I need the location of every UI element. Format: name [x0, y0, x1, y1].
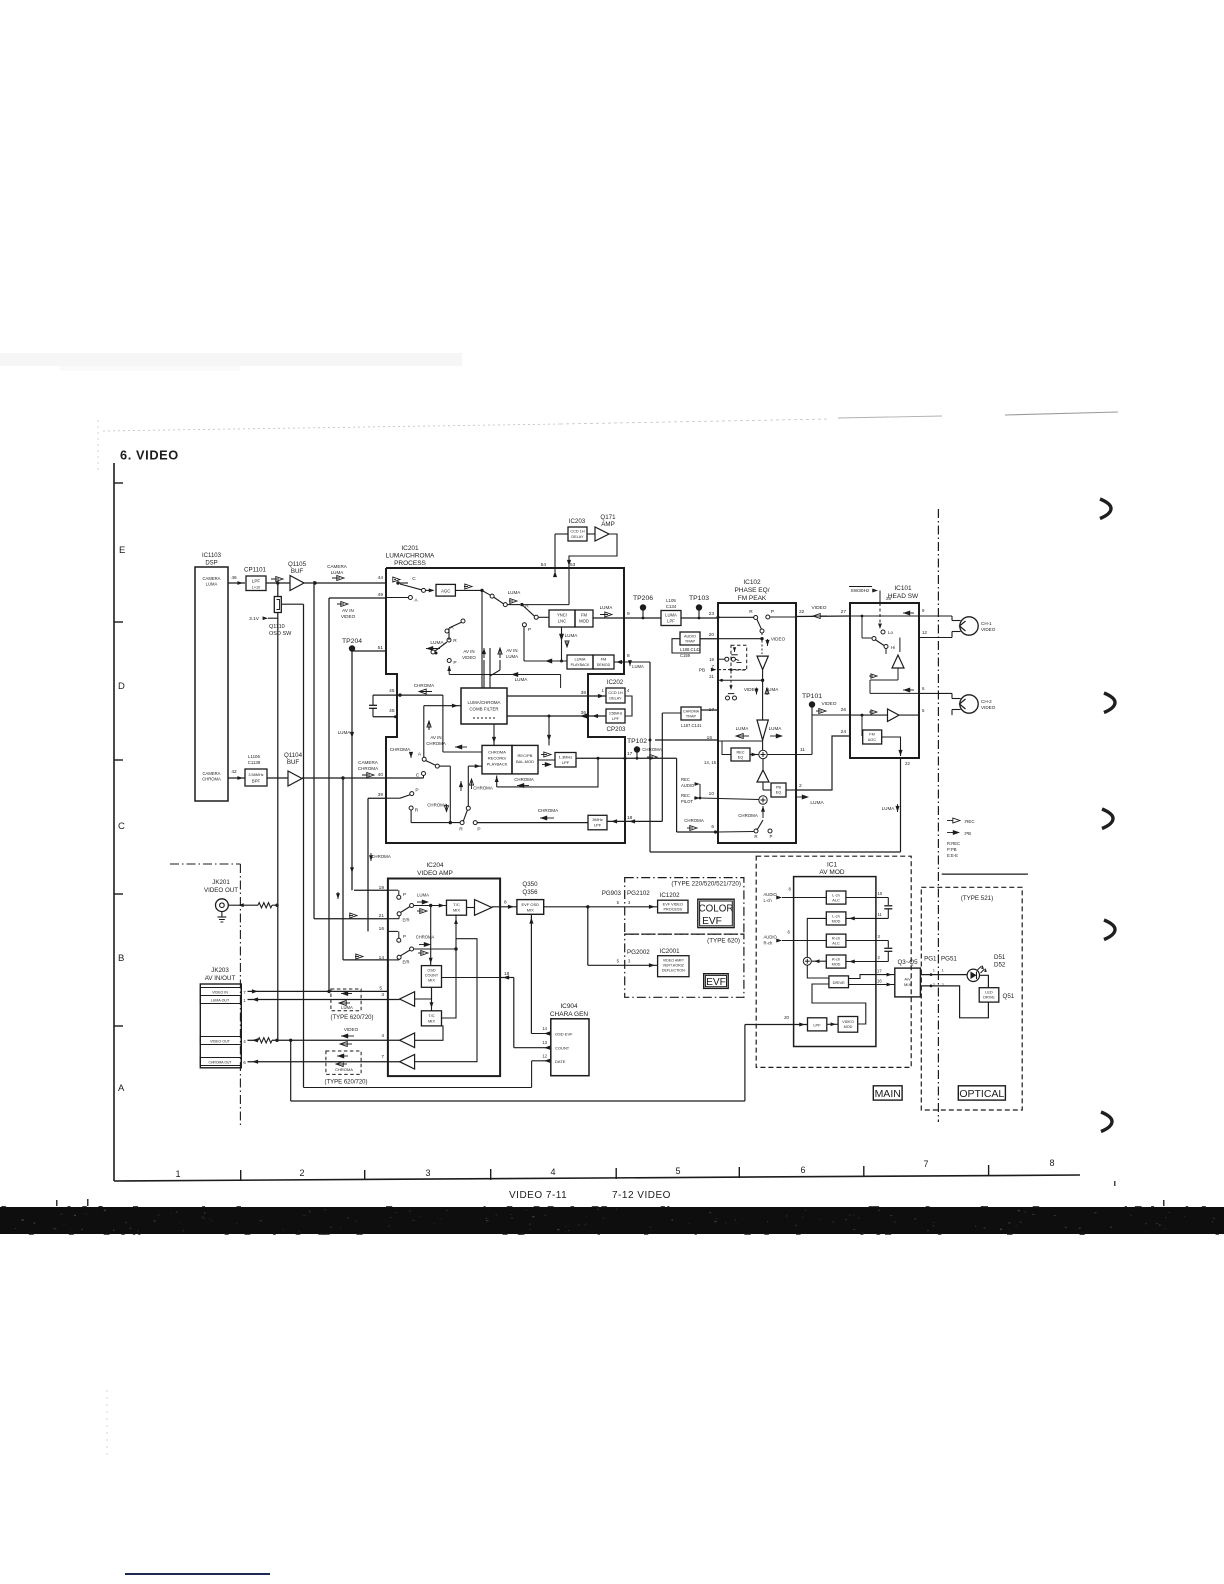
svg-text:28: 28: [886, 596, 891, 601]
svg-text:DRIVE: DRIVE: [833, 980, 846, 985]
svg-text:COMB FILTER: COMB FILTER: [469, 707, 498, 712]
svg-text:PB: PB: [699, 668, 705, 674]
svg-text:LUMA: LUMA: [417, 893, 429, 898]
svg-text:COLOR: COLOR: [699, 904, 734, 915]
svg-text:CHROMA: CHROMA: [358, 766, 379, 771]
amplifier (up) PB eq driver: [757, 759, 769, 782]
svg-text:C159: C159: [680, 653, 691, 658]
svg-text:(TYPE 620/720): (TYPE 620/720): [330, 1015, 373, 1021]
block 1.3MHz LPF: [555, 753, 576, 768]
svg-text:DSP: DSP: [205, 561, 217, 567]
svg-text:VIDEO 7-11: VIDEO 7-11: [509, 1190, 567, 1201]
svg-text:R-ch: R-ch: [832, 958, 840, 962]
svg-text:JK203: JK203: [211, 967, 229, 974]
wire OSD date vertical from Q1110: [303, 604, 305, 1087]
wire P contact to luma playback line: [524, 627, 567, 663]
svg-text:CHROMA OUT: CHROMA OUT: [209, 1061, 232, 1065]
svg-text:2: 2: [299, 1168, 304, 1178]
svg-text:IC204: IC204: [426, 862, 444, 869]
svg-text:REC/PB: REC/PB: [518, 753, 533, 758]
block CCD 1H DELAY (IC202): [602, 688, 630, 703]
svg-text:CAMERA: CAMERA: [203, 576, 221, 581]
boundary horizontal segment right: [942, 873, 1028, 875]
svg-text:BPF: BPF: [252, 779, 261, 784]
svg-text:VIDEO: VIDEO: [842, 1020, 854, 1024]
block LED DRIVE: [979, 988, 1015, 1002]
title 6. VIDEO: [120, 448, 179, 463]
connector boundary dash-dot near JK: [170, 864, 240, 1125]
svg-text:OPTICAL: OPTICAL: [959, 1088, 1004, 1100]
dashed box LUMA (TYPE 620/720): [330, 989, 373, 1021]
wire chroma chain down to T/C MIX 2: [430, 987, 434, 1011]
svg-text:E/R: E/R: [403, 960, 410, 965]
svg-text:Q51: Q51: [1003, 993, 1015, 1000]
svg-text:LUMA: LUMA: [331, 570, 345, 575]
svg-text:TRAP: TRAP: [686, 715, 697, 719]
wire chroma to 3MHz LPF: [477, 822, 588, 824]
svg-text:VIDEO: VIDEO: [344, 1027, 359, 1032]
svg-text:CHROMA: CHROMA: [371, 854, 391, 859]
svg-text:45: 45: [389, 708, 395, 714]
svg-text:AV MOD: AV MOD: [819, 869, 844, 876]
inductor L1106 C1138 label: [248, 754, 261, 765]
boxed label EVF: [704, 974, 729, 989]
wire chroma feedback loop under bal mod: [495, 757, 600, 788]
svg-text:Q350: Q350: [522, 881, 538, 888]
amplifier head ch2 (right): [869, 709, 899, 722]
svg-text:4: 4: [550, 1167, 555, 1177]
wires from AV-in switches up to luma path: [449, 619, 500, 688]
svg-text:18: 18: [627, 815, 633, 821]
svg-text:TP102: TP102: [627, 738, 647, 745]
svg-text:CHROMA: CHROMA: [390, 747, 411, 752]
svg-text:LPF: LPF: [667, 619, 675, 624]
block REC EQ: [704, 741, 750, 765]
svg-text:VIDEO: VIDEO: [981, 705, 996, 710]
svg-text:L188.C142: L188.C142: [680, 647, 701, 652]
label CHROMA + up/down arrows mid: [459, 779, 493, 791]
wires comb filter top feeds: [482, 590, 490, 688]
amplifier pin 4 (left): [400, 1026, 443, 1048]
svg-text:LUMA OUT: LUMA OUT: [211, 999, 230, 1003]
svg-text:AUDIO: AUDIO: [764, 935, 778, 940]
switch S5 (R/P) chroma bottom of IC201: [409, 764, 482, 832]
label VIDEO + REC arrow at pin 26: [816, 701, 846, 713]
svg-text:IC202: IC202: [607, 679, 624, 686]
svg-text:R: R: [415, 808, 419, 814]
amplifier (down) FM limiter: [718, 641, 768, 683]
svg-text:P: P: [403, 892, 406, 897]
label AUDIO L-ch pin 8: [764, 887, 792, 904]
label SW30Hz with overline: [849, 587, 878, 595]
svg-text:EVF: EVF: [706, 977, 726, 988]
wire DRIVE outputs to A/V MIX pins 17 16: [849, 969, 895, 987]
svg-text:COUNT: COUNT: [425, 974, 439, 978]
wire 3.58 LPF return to comb: [507, 714, 588, 719]
svg-text:1×10: 1×10: [252, 586, 261, 590]
svg-text:8: 8: [504, 900, 507, 906]
svg-text:8: 8: [1049, 1158, 1054, 1168]
block R-ch MOD: [826, 955, 846, 968]
test point TP206: [633, 595, 653, 619]
svg-text:10: 10: [878, 891, 883, 896]
wire IC1103 pin42 to BPF: [228, 776, 245, 780]
label CHROMA + REC arrow at pin 6: [684, 818, 704, 830]
svg-text:E: E: [119, 545, 125, 556]
svg-text:VIDEO: VIDEO: [822, 701, 837, 707]
svg-text:LUMA: LUMA: [506, 654, 518, 659]
block EVF VIDEO PROCESS: [658, 900, 688, 913]
label luma arrow rail at 914: [336, 892, 340, 899]
svg-text:B: B: [118, 953, 124, 964]
IC IC1 AV MOD: [794, 862, 876, 1047]
block EVF OSD MIX (Q350 Q356): [517, 881, 544, 914]
svg-text:PG51: PG51: [941, 956, 957, 963]
block L-ch ALC: [826, 891, 846, 904]
wire summing node to DRIVE: [807, 965, 829, 978]
wire 3.58 LPF to pin 36: [588, 714, 606, 718]
svg-text:OSD EVF: OSD EVF: [555, 1032, 573, 1037]
label CHROMA + REC arrow right of TP102: [642, 747, 662, 759]
IC IC904 CHARA GEN: [550, 1003, 589, 1076]
svg-text:VIDEO: VIDEO: [462, 655, 476, 660]
wire FM AGC to pin 22: [882, 737, 911, 766]
wire pin 20 to LPF: [784, 1015, 805, 1026]
wire camera luma: Q1105 to IC201 pin 44: [276, 581, 386, 584]
block LUMA LPF: [661, 611, 681, 626]
boxed label COLOR EVF: [698, 899, 734, 927]
svg-text:LUMA: LUMA: [574, 657, 585, 662]
left border line with row ticks: [114, 463, 123, 1181]
svg-text:L1106: L1106: [248, 754, 260, 759]
video head CH-2: [919, 693, 996, 715]
buffer Q1104 BUF: [284, 752, 303, 786]
svg-text:IC904: IC904: [560, 1003, 578, 1010]
svg-text:LUMA: LUMA: [206, 582, 218, 587]
svg-text:PLAYBACK: PLAYBACK: [487, 762, 508, 767]
svg-text:4: 4: [381, 1033, 384, 1039]
wires comb filter down to chroma record/playback: [492, 716, 551, 745]
svg-text:OSD: OSD: [427, 969, 435, 973]
svg-text:Q3~Q5: Q3~Q5: [897, 959, 918, 966]
svg-text:ALC: ALC: [832, 942, 840, 946]
label IC102 PHASE EQ/ FM PEAK: [734, 579, 769, 602]
svg-text:LUMA: LUMA: [515, 677, 529, 682]
row labels E D C B A: [118, 545, 125, 1094]
svg-text:10: 10: [709, 791, 715, 797]
label LUMA arrows at pin 16 level: [736, 726, 783, 738]
svg-text:40: 40: [378, 772, 384, 778]
switch S10 luma P/ER: [397, 890, 414, 922]
svg-text:LUMA: LUMA: [882, 806, 896, 811]
svg-text:CHROMA: CHROMA: [738, 813, 758, 818]
svg-text:MAIN: MAIN: [875, 1088, 901, 1100]
svg-text:BUF: BUF: [291, 568, 304, 575]
svg-text:PROCESS: PROCESS: [394, 560, 426, 567]
svg-text:MOD: MOD: [832, 919, 841, 923]
svg-text:IC102: IC102: [743, 579, 761, 586]
wire EVF OSD MIX output to PG connectors: [544, 905, 658, 909]
video head CH-1: [919, 616, 996, 638]
wire vertical chroma feed to IC204 pin 14: [341, 776, 344, 960]
pin 42 of IC1103: [231, 769, 237, 775]
wire LED to LED DRIVE: [980, 975, 989, 987]
bottom axis line with column ticks: [114, 1165, 1080, 1181]
dashed box OPTICAL (TYPE 521): [921, 887, 1022, 1110]
block YNC/LNC and FM MOD: [549, 610, 593, 627]
mixer node circle 1: [750, 740, 767, 759]
svg-text:(TYPE 220/520/521/720): (TYPE 220/520/521/720): [671, 881, 741, 888]
wire bal mod to 1.3MHz LPF with REC/PB arrows: [538, 752, 555, 767]
svg-text:D51: D51: [994, 954, 1006, 961]
wire T/C2 to EVF OSD mix vertical: [442, 914, 458, 1018]
svg-text:20: 20: [784, 1015, 789, 1020]
svg-text:CHROMA: CHROMA: [684, 818, 704, 823]
wire luma switch to T/C MIX: [414, 904, 447, 908]
mixer node circle 2: [759, 790, 767, 804]
svg-text:8: 8: [627, 653, 630, 659]
svg-text:C: C: [412, 576, 416, 582]
switch S2 (C/R) after AGC with LUMA arrow: [455, 584, 549, 633]
svg-text:LPF: LPF: [813, 1022, 821, 1027]
block PB EQ: [763, 782, 786, 797]
legend REC/PB arrows: [947, 818, 975, 858]
svg-text:CHROMA: CHROMA: [416, 935, 435, 940]
svg-text:7-12 VIDEO: 7-12 VIDEO: [612, 1190, 671, 1201]
svg-text:LNC: LNC: [558, 619, 566, 624]
IC IC102 PHASE EQ/FM PEAK outline: [718, 603, 796, 843]
svg-text::REC: :REC: [964, 819, 975, 824]
svg-text:C134: C134: [666, 604, 677, 609]
svg-text:9: 9: [627, 611, 630, 617]
svg-text:C1138: C1138: [248, 760, 261, 765]
svg-text:(TYPE 620/720): (TYPE 620/720): [324, 1080, 367, 1086]
svg-text:VIDEO IN: VIDEO IN: [212, 991, 228, 995]
label VIDEO down + LUMA arrows: [744, 637, 786, 696]
block 3.58MHz BPF: [245, 769, 267, 786]
IC IC1103 DSP: [195, 553, 228, 801]
svg-text:3MHz: 3MHz: [592, 817, 602, 822]
svg-text:AGC: AGC: [868, 738, 876, 742]
svg-text:7: 7: [923, 1159, 928, 1169]
wire LPF to VIDEO MOD: [827, 1022, 838, 1026]
pins 9 8 38 36 17 18 of IC201 right: [581, 611, 633, 821]
svg-text:LUMA: LUMA: [508, 590, 522, 595]
svg-text:ALC: ALC: [832, 899, 840, 903]
amplifier pin 7 (left): [400, 933, 477, 1069]
wire pin 19 luma P input: [354, 889, 398, 891]
boxed label OPTICAL: [958, 1086, 1005, 1100]
svg-text:42: 42: [231, 769, 237, 775]
svg-text:LUMA: LUMA: [736, 726, 750, 731]
svg-text:YNC/: YNC/: [557, 613, 568, 618]
svg-text:16: 16: [877, 979, 882, 984]
svg-text:12: 12: [542, 1054, 547, 1059]
svg-text:D: D: [118, 681, 125, 692]
wire pin 26 input / pin 5 output: [850, 708, 925, 717]
wires E-E path with REC arrows: [869, 674, 898, 693]
binder hole marks right edge: [1100, 499, 1111, 519]
label CHROMA + PB arrow mid-bottom: [538, 808, 559, 820]
svg-text:EVF VIDEO: EVF VIDEO: [663, 903, 683, 907]
wire ALC to pin 10 and capacitor to pin 11: [846, 891, 892, 920]
svg-text:11: 11: [800, 747, 805, 753]
svg-text:20: 20: [709, 632, 715, 638]
svg-text:LPF: LPF: [252, 579, 261, 584]
buffer Q1105 BUF: [288, 561, 307, 591]
svg-text:L105: L105: [666, 598, 676, 603]
svg-text:LPF: LPF: [594, 823, 602, 828]
block VIDEO MOD: [838, 1017, 858, 1033]
svg-text:PLAYBACK: PLAYBACK: [571, 663, 590, 667]
footer page numbers VIDEO 7-11 / 7-12 VIDEO: [509, 1190, 671, 1201]
wire pin 11 to TP101 to IC101 pin 26: [767, 707, 850, 755]
svg-text:DELAY: DELAY: [571, 535, 584, 539]
svg-text:CHROMA: CHROMA: [642, 747, 662, 752]
block LUMA/CHROMA COMB FILTER: [461, 688, 507, 724]
svg-text:LUMA/CHROMA: LUMA/CHROMA: [468, 700, 501, 705]
summing node circle: [803, 957, 826, 965]
svg-text:6: 6: [800, 1165, 805, 1175]
svg-text::PB: :PB: [964, 831, 971, 836]
wire luma pin9: FM MOD to IC102 pin 23 (through TP206, LUMA LPF, TP103): [593, 617, 718, 619]
svg-text:C: C: [416, 773, 420, 779]
svg-text:(TYPE 620): (TYPE 620): [707, 938, 740, 945]
wire pin 14 chroma ER input: [343, 954, 399, 960]
svg-text:LUMA: LUMA: [769, 726, 783, 731]
label Q3~Q5: [897, 959, 918, 966]
block FM AGC: [863, 730, 882, 744]
svg-text:PB: PB: [776, 786, 782, 790]
svg-text:R: R: [754, 834, 757, 839]
svg-text:3: 3: [381, 992, 384, 998]
svg-text:P: P: [453, 660, 456, 666]
navy line bottom left: [125, 1573, 270, 1575]
svg-text:LUMA: LUMA: [600, 605, 614, 610]
svg-text:3.1V: 3.1V: [249, 616, 260, 622]
svg-text:P: P: [528, 627, 531, 633]
svg-text:REC: REC: [736, 751, 744, 755]
svg-text:L-ch: L-ch: [764, 898, 773, 903]
svg-text:IC201: IC201: [401, 545, 419, 552]
wire audio trap to pin 20: [672, 632, 764, 653]
label IC2001: [660, 948, 681, 955]
svg-text:51: 51: [378, 645, 384, 651]
label LUMA + REC arrow at pin 9: [600, 605, 614, 617]
pin 23 of IC102: [709, 611, 715, 617]
svg-text:AUDIO: AUDIO: [684, 635, 696, 639]
svg-text:CHROMA: CHROMA: [514, 777, 534, 782]
wire VIDEO IN to pin 49 riser: [248, 986, 388, 994]
svg-text:E:E-E: E:E-E: [947, 853, 958, 858]
svg-text:27: 27: [841, 609, 847, 615]
svg-text:VIDEO: VIDEO: [341, 614, 356, 619]
wire pin 8 from FM DEMOD: [614, 660, 624, 664]
connector JK203 AV IN/OUT: [200, 967, 246, 1068]
svg-text:22: 22: [905, 761, 910, 766]
svg-text:AV IN: AV IN: [463, 649, 474, 654]
page scan artifacts: faint top bands: [0, 353, 1118, 1460]
svg-text:CHROMA: CHROMA: [427, 803, 447, 808]
wire Q1110 down to video-out junction (long vertical): [277, 613, 279, 1041]
test point TP103: [689, 595, 709, 619]
svg-text:CAMERA: CAMERA: [203, 771, 221, 776]
svg-text:CHROMA: CHROMA: [473, 786, 493, 791]
svg-text:VIDEO: VIDEO: [812, 605, 827, 611]
label L188.C142 C159: [680, 647, 701, 658]
svg-text:1.3MHz: 1.3MHz: [559, 755, 573, 760]
label AUDIO R-ch pin 6: [764, 930, 791, 946]
wire pin 39 to P contact blade: [386, 795, 410, 799]
svg-text:IC203: IC203: [569, 518, 586, 525]
svg-text:53: 53: [570, 562, 576, 568]
amplifier video out (right): [467, 900, 492, 916]
svg-text:FM: FM: [601, 657, 607, 662]
svg-text:14: 14: [542, 1026, 547, 1031]
svg-text:REC: REC: [681, 777, 690, 782]
svg-text:FM: FM: [581, 613, 588, 618]
svg-text:LUMA/CHROMA: LUMA/CHROMA: [386, 553, 435, 560]
test point TP204: [342, 638, 362, 652]
svg-text:L187.C141: L187.C141: [681, 723, 702, 728]
wire DATE line: [532, 1059, 551, 1063]
wire chroma trap to pin 17: [701, 707, 718, 713]
svg-text:11: 11: [878, 912, 883, 917]
svg-text:LUMA: LUMA: [341, 1005, 353, 1010]
dashed box CHROMA (TYPE 620/720): [324, 1051, 367, 1086]
svg-text:19: 19: [709, 657, 714, 662]
block CHROMA TRAP: [681, 707, 701, 720]
svg-text:EQ: EQ: [738, 756, 744, 760]
svg-text:23: 23: [709, 611, 715, 617]
svg-text:OSD SW: OSD SW: [269, 631, 292, 637]
svg-text:AUDIO: AUDIO: [681, 783, 695, 788]
wire pin38 into CCD delay: [588, 694, 606, 698]
svg-text:P: P: [415, 788, 418, 794]
label CP203: [607, 726, 626, 733]
svg-text:E/R: E/R: [403, 918, 410, 923]
svg-text:46: 46: [231, 575, 237, 581]
svg-text:L-ch: L-ch: [832, 894, 839, 898]
svg-text:AV IN: AV IN: [342, 608, 354, 613]
dashed box EVF TYPE 220/520/521/720: [625, 878, 744, 935]
wire LUMA OUT from IC204 pin 3 amp: [248, 997, 400, 1001]
svg-text:CHARA GEN: CHARA GEN: [550, 1011, 589, 1018]
svg-text:CAMERA: CAMERA: [358, 760, 379, 765]
svg-text:CHROMA: CHROMA: [335, 1067, 353, 1072]
label IC204 VIDEO AMP: [417, 862, 453, 877]
svg-text:LPF: LPF: [612, 717, 620, 721]
label CHROMA + up arrow into mixer 2: [738, 806, 765, 818]
svg-text:39: 39: [378, 792, 384, 798]
dashed box EVF TYPE 620: [625, 934, 744, 997]
svg-text:AUDIO: AUDIO: [764, 892, 778, 897]
block LUMA PLAYBACK and FM DEMOD: [567, 655, 614, 669]
pin 46 of IC1103: [231, 575, 237, 581]
svg-text:TP101: TP101: [802, 693, 822, 700]
svg-text:VERT.HORIZ: VERT.HORIZ: [663, 963, 685, 967]
svg-text:R:REC: R:REC: [947, 841, 960, 846]
svg-text:17: 17: [709, 707, 715, 713]
svg-text:EQ: EQ: [776, 791, 782, 795]
wire A/V MIX pin1 to LED D51: [920, 973, 967, 976]
svg-text:5: 5: [379, 986, 382, 992]
svg-text:LUMA: LUMA: [565, 633, 579, 638]
capacitor C at IC201 pins 45: [369, 695, 377, 717]
svg-text:44: 44: [378, 575, 384, 581]
wire A/V MIX pin2 loop to LED DRIVE: [920, 985, 988, 1018]
wire pin 21 luma ER input: [314, 913, 399, 919]
